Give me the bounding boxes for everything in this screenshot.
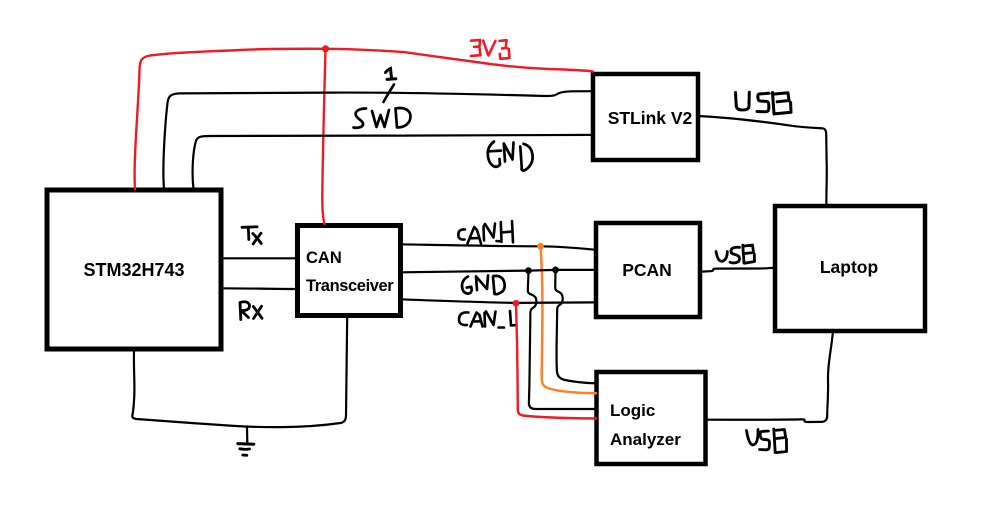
label GND (top, near STLink) [488, 142, 533, 171]
block STLink V2 [593, 74, 698, 160]
ground symbol [238, 427, 254, 455]
block Laptop [775, 206, 925, 331]
wire MCU ground (STM32 bottom to transceiver bottom) [132, 316, 347, 427]
wire red CAN_L to Logic Analyzer [516, 303, 596, 418]
wire CAN_H (transceiver to PCAN) [401, 244, 596, 250]
wire USB (Laptop to Logic Analyzer) [706, 333, 833, 422]
svg-text:STM32H743: STM32H743 [83, 260, 184, 280]
block Logic Analyzer [597, 372, 706, 464]
wire 3V3 drop to CAN transceiver [322, 49, 325, 224]
junction dot 3V3 [322, 45, 329, 52]
wire Tx [221, 257, 297, 259]
label CAN_H [458, 221, 513, 244]
wire GND (STM32 to STLink) [193, 135, 593, 189]
red junction dot on CAN_L [513, 300, 520, 307]
svg-text:Laptop: Laptop [820, 257, 878, 277]
wire Rx [221, 287, 297, 290]
svg-text:Analyzer: Analyzer [610, 430, 681, 449]
wire GND (transceiver to PCAN) [401, 270, 596, 272]
label CAN_L [459, 311, 517, 328]
wire GND drop 1 to Logic Analyzer (hop over CAN_L) [528, 272, 596, 409]
label USB (bottom) [747, 429, 787, 453]
label USB (middle) [716, 245, 755, 263]
junction dot GND 1 [525, 267, 532, 274]
wire GND drop 2 to Logic Analyzer (hop over CAN_L) [555, 271, 596, 383]
label USB (top) [736, 92, 792, 114]
junction dot GND 2 [552, 267, 559, 274]
block STM32H743 [47, 190, 221, 349]
label SWD [354, 108, 411, 128]
label Tx [242, 227, 261, 244]
orange junction dot on CAN_H [537, 243, 544, 250]
wire orange CAN_H to Logic Analyzer [541, 246, 597, 393]
label Rx [240, 302, 262, 320]
svg-text:PCAN: PCAN [622, 260, 672, 280]
bus width tick 1 [384, 69, 396, 103]
block CAN Transceiver [298, 226, 401, 316]
label GND (middle) [462, 276, 505, 295]
wire USB (STLink to Laptop) [698, 116, 827, 206]
svg-text:Logic: Logic [610, 401, 655, 420]
svg-text:CAN: CAN [306, 249, 342, 267]
wire SWD (STM32 to STLink) [163, 91, 593, 189]
wire 3V3 red (STM32 to STLink) [135, 49, 593, 189]
block PCAN [596, 223, 700, 317]
wire CAN_L (transceiver to PCAN) [401, 299, 596, 303]
wire USB (PCAN to Laptop) [702, 268, 775, 272]
label 3V3 red [471, 40, 510, 59]
svg-text:STLink V2: STLink V2 [608, 108, 693, 128]
svg-text:Transceiver: Transceiver [306, 277, 394, 295]
